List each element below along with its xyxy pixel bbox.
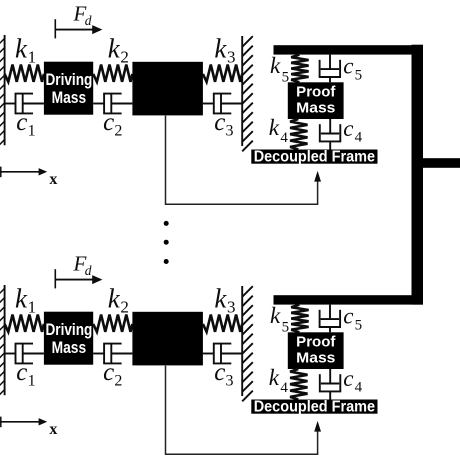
svg-text:4: 4: [280, 130, 288, 146]
connector wire mass-to-frame (unitN): [166, 366, 322, 455]
damper c3 (unit1): [203, 94, 242, 114]
label k4 (unitN): [269, 365, 289, 396]
svg-text:k: k: [214, 34, 227, 64]
label c1 (unit1): [16, 109, 35, 139]
svg-text:Driving: Driving: [46, 71, 93, 89]
drive force arrow F_d (unitN): [55, 269, 102, 288]
svg-text:3: 3: [227, 297, 236, 316]
spring k3 (unit1): [203, 65, 242, 82]
svg-text:c: c: [103, 109, 114, 136]
subsystem N (bottom drive/sense unit): [0, 251, 423, 454]
spring k1 (unitN): [5, 315, 44, 332]
decoupled frame bar (unitN): [251, 400, 377, 414]
label Driving Mass (unit1): [46, 71, 93, 107]
svg-text:k: k: [214, 284, 227, 314]
damper c5 (unitN): [319, 305, 341, 333]
svg-text:5: 5: [355, 318, 363, 334]
label c2 (unit1): [103, 109, 122, 139]
damper c3 (unitN): [203, 344, 242, 364]
svg-text:c: c: [343, 53, 353, 78]
spring k4 (unitN): [290, 369, 307, 400]
svg-text:Mass: Mass: [296, 351, 335, 367]
svg-text:2: 2: [120, 297, 128, 316]
svg-text:x: x: [49, 171, 57, 188]
svg-text:k: k: [269, 365, 280, 390]
svg-text:4: 4: [280, 380, 288, 396]
label c5 (unit1): [343, 53, 362, 83]
spring k1 (unit1): [5, 65, 44, 82]
svg-text:k: k: [270, 303, 281, 328]
svg-text:d: d: [85, 263, 92, 278]
common rigid link vertical bar: [412, 45, 424, 305]
svg-text:2: 2: [114, 123, 122, 140]
label k3 (unitN): [214, 284, 235, 317]
svg-text:k: k: [108, 34, 121, 64]
svg-text:c: c: [343, 116, 353, 141]
label k2 (unitN): [108, 284, 129, 317]
svg-text:5: 5: [355, 68, 363, 84]
svg-text:Mass: Mass: [52, 89, 87, 107]
ellipsis dots between units: [164, 221, 169, 264]
label k2 (unit1): [108, 34, 129, 67]
svg-text:k: k: [15, 34, 28, 64]
label Driving Mass (unitN): [46, 321, 93, 357]
label c4 (unitN): [343, 366, 362, 396]
connector wire mass-to-frame (unit1): [166, 116, 322, 205]
damper c5 (unit1): [319, 55, 341, 83]
svg-text:2: 2: [120, 47, 128, 66]
anchor bar (unit1): [274, 45, 424, 54]
left fixed wall (unit1): [0, 35, 5, 145]
label c1 (unitN): [16, 359, 35, 389]
label k5 (unit1): [270, 53, 289, 86]
label k5 (unitN): [270, 303, 289, 336]
x axis arrow (unit1): [0, 167, 47, 178]
label F_d (unit1): [73, 1, 92, 28]
damper c2 (unit1): [93, 94, 132, 114]
svg-text:Decoupled Frame: Decoupled Frame: [254, 398, 376, 415]
label k3 (unit1): [214, 34, 235, 67]
svg-text:k: k: [269, 115, 280, 140]
svg-text:4: 4: [355, 130, 363, 146]
svg-text:Driving: Driving: [46, 321, 93, 339]
label k1 (unitN): [15, 284, 36, 317]
svg-text:d: d: [85, 13, 92, 28]
subsystem 1 (top drive/sense unit): [0, 1, 423, 204]
damper c1 (unit1): [5, 94, 44, 114]
svg-text:1: 1: [28, 373, 36, 390]
svg-text:1: 1: [28, 47, 36, 66]
svg-text:c: c: [343, 366, 353, 391]
label c5 (unitN): [343, 303, 362, 333]
spring k5 (unitN): [291, 305, 308, 333]
sense mass block (unitN): [132, 312, 203, 366]
svg-text:k: k: [270, 53, 281, 78]
svg-text:Proof: Proof: [296, 84, 335, 100]
sense mass block (unit1): [132, 62, 203, 116]
spring k2 (unit1): [93, 65, 132, 82]
driving mass block (unit1): [44, 62, 93, 115]
svg-text:1: 1: [28, 297, 36, 316]
spring k4 (unit1): [290, 119, 307, 150]
label k4 (unit1): [269, 115, 289, 146]
right fixed wall (unit1): [242, 36, 253, 151]
left fixed wall (unitN): [0, 285, 5, 395]
svg-text:4: 4: [355, 380, 363, 396]
damper c4 (unitN): [319, 369, 341, 400]
label k1 (unit1): [15, 34, 36, 67]
label F_d (unitN): [73, 251, 92, 278]
label c3 (unitN): [214, 359, 233, 389]
damper c1 (unitN): [5, 344, 44, 364]
svg-text:x: x: [49, 421, 57, 438]
svg-text:c: c: [343, 303, 353, 328]
proof mass block (unitN): [288, 332, 344, 369]
label Proof Mass (unitN): [296, 334, 335, 366]
spring k2 (unitN): [93, 315, 132, 332]
anchor bar (unitN): [274, 295, 424, 304]
x axis arrow (unitN): [0, 417, 47, 428]
svg-text:Decoupled Frame: Decoupled Frame: [254, 148, 376, 165]
output stub bar to right edge: [417, 158, 460, 168]
right fixed wall (unitN): [242, 286, 253, 401]
svg-text:c: c: [16, 359, 27, 386]
svg-text:k: k: [15, 284, 28, 314]
spring k3 (unitN): [203, 315, 242, 332]
svg-text:c: c: [214, 109, 225, 136]
svg-text:3: 3: [226, 373, 234, 390]
drive force arrow F_d (unit1): [55, 19, 102, 38]
svg-text:c: c: [16, 109, 27, 136]
proof mass block (unit1): [288, 82, 344, 119]
svg-text:k: k: [108, 284, 121, 314]
svg-text:2: 2: [114, 373, 122, 390]
damper c4 (unit1): [319, 119, 341, 150]
spring k5 (unit1): [291, 55, 308, 83]
svg-text:c: c: [103, 359, 114, 386]
svg-text:1: 1: [28, 123, 36, 140]
driving mass block (unitN): [44, 312, 93, 365]
svg-text:Mass: Mass: [296, 101, 335, 117]
svg-text:3: 3: [227, 47, 236, 66]
decoupled frame bar (unit1): [251, 150, 377, 164]
label c4 (unit1): [343, 116, 362, 146]
svg-text:3: 3: [226, 123, 234, 140]
label Proof Mass (unit1): [296, 84, 335, 116]
label c2 (unitN): [103, 359, 122, 389]
svg-text:Mass: Mass: [52, 339, 87, 357]
label c3 (unit1): [214, 109, 233, 139]
svg-text:Proof: Proof: [296, 334, 335, 350]
svg-text:c: c: [214, 359, 225, 386]
damper c2 (unitN): [93, 344, 132, 364]
